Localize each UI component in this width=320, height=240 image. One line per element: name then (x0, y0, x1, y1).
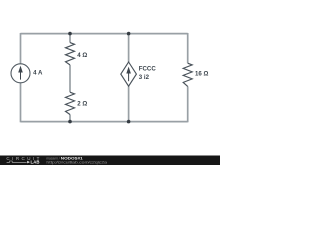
current source I1 circle (11, 64, 30, 83)
wire middle branch top lead (69, 34, 71, 43)
wire right lower (187, 86, 189, 122)
svg-text:4 A: 4 A (33, 70, 43, 77)
svg-text:2 Ω: 2 Ω (77, 100, 87, 107)
node dot top-left junction (68, 32, 72, 36)
wire FCCC bottom lead (128, 86, 130, 121)
wire right upper (187, 33, 189, 63)
footer bar (0, 156, 220, 166)
footer owner text (46, 156, 108, 165)
node dot bottom-right junction (127, 120, 131, 124)
svg-text:3 i2: 3 i2 (139, 74, 150, 81)
node dot top-right junction (127, 32, 131, 36)
svg-text:16 Ω: 16 Ω (195, 71, 208, 78)
wire left lower (20, 83, 22, 123)
wire between R1 and R2 (69, 65, 71, 92)
current source I1 arrow (19, 67, 22, 79)
resistor R1 zigzag (66, 43, 75, 65)
FCCC dependent source diamond (121, 62, 137, 86)
wire middle branch bottom lead (69, 115, 71, 122)
svg-text:4 Ω: 4 Ω (77, 52, 87, 59)
wire FCCC top lead (128, 34, 130, 62)
wire left upper (20, 33, 22, 64)
wire bottom (21, 121, 188, 123)
wire top (21, 33, 188, 35)
FCCC arrow (127, 68, 130, 81)
node dot bottom-left junction (68, 120, 72, 124)
svg-text:LAB: LAB (31, 160, 40, 165)
resistor R3 zigzag (183, 63, 192, 86)
svg-text:http:∕∕circuitlab.com∕c2qlc2a: http:∕∕circuitlab.com∕c2qlc2a (46, 159, 108, 164)
svg-text:FCCC: FCCC (139, 65, 157, 72)
resistor R2 zigzag (66, 92, 75, 114)
footer CircuitLab logo (6, 156, 39, 165)
